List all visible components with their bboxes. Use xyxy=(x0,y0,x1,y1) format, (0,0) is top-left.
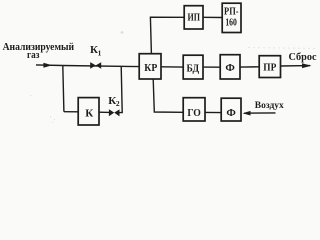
svg-text:Ф: Ф xyxy=(225,62,235,74)
svg-text:160: 160 xyxy=(225,17,237,28)
svg-text:Воздух: Воздух xyxy=(255,100,284,111)
wire: KP top riser to IP xyxy=(150,17,184,53)
svg-text:газ: газ xyxy=(27,50,40,61)
valve K2 xyxy=(109,109,120,116)
wire: F to PR xyxy=(240,66,259,68)
block F bottom xyxy=(221,98,241,121)
valve K1 xyxy=(90,62,101,69)
wire: inlet line to junction xyxy=(36,64,63,67)
wire: GO to F bottom xyxy=(205,111,221,113)
arrowhead inlet xyxy=(43,63,52,68)
block K xyxy=(78,98,99,125)
faint dotted scan line above Sbros label xyxy=(248,47,318,50)
paper background xyxy=(0,0,319,131)
wire: KP to BD xyxy=(161,66,183,68)
wire: IP to RP-160 xyxy=(203,16,222,18)
block GO xyxy=(183,98,205,121)
svg-text:К: К xyxy=(85,107,93,119)
svg-text:ПР: ПР xyxy=(263,61,276,73)
block RP-160 xyxy=(222,3,241,32)
text RP-160 xyxy=(224,7,239,29)
svg-text:РП-: РП- xyxy=(224,7,239,18)
svg-text:Сброс: Сброс xyxy=(289,52,317,63)
wire: valve K2 up to main line xyxy=(119,66,122,112)
wire: BD to F xyxy=(203,66,220,68)
block BD xyxy=(183,55,203,79)
label K1 xyxy=(90,44,102,57)
block IP xyxy=(184,6,203,29)
wire: KP bottom drop to GO xyxy=(153,79,183,112)
label K2 xyxy=(108,95,120,108)
label Analiziruemyi gaz xyxy=(3,42,75,61)
svg-text:ГО: ГО xyxy=(187,107,201,119)
wire: K block to valve K2 xyxy=(99,111,110,113)
block KP xyxy=(139,54,161,79)
svg-text:1: 1 xyxy=(98,48,102,57)
svg-text:БД: БД xyxy=(187,62,200,74)
faint speckle cluster lower-left xyxy=(30,95,55,123)
wire: junction drop down xyxy=(63,66,64,112)
svg-text:Ф: Ф xyxy=(226,107,236,119)
wire: junction to KP block (main line) xyxy=(63,66,139,67)
svg-text:2: 2 xyxy=(116,99,120,108)
faint scan speckle near top-right of gas label area xyxy=(121,31,124,34)
arrowhead Vozdukh (points left) xyxy=(243,111,251,116)
svg-text:ИП: ИП xyxy=(188,12,201,24)
wire: Vozdukh inlet line xyxy=(244,112,276,114)
block F top xyxy=(220,55,240,79)
svg-text:КР: КР xyxy=(144,62,157,74)
block PR xyxy=(259,56,280,78)
wire: PR to Sbros outlet xyxy=(281,65,311,67)
arrowhead Sbros outlet xyxy=(302,63,312,68)
wire: bottom branch to K block xyxy=(64,111,78,113)
